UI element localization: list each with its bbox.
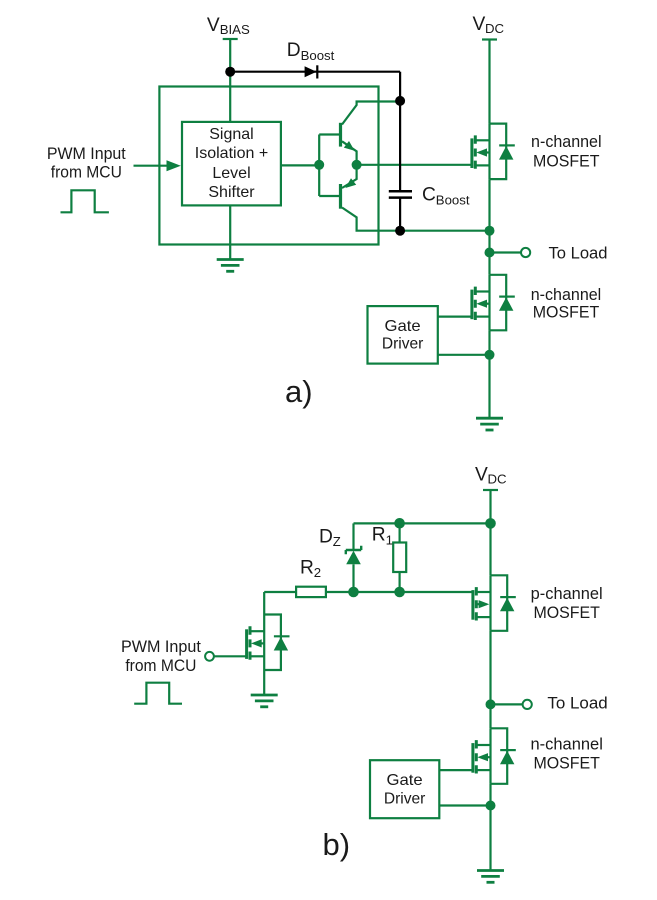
svg-text:n-channel: n-channel (531, 735, 603, 753)
svg-text:Driver: Driver (382, 335, 424, 352)
svg-text:1: 1 (386, 533, 393, 548)
svg-text:DC: DC (488, 471, 508, 486)
svg-text:C: C (422, 185, 436, 206)
svg-text:2: 2 (314, 565, 321, 580)
svg-text:MOSFET: MOSFET (533, 152, 600, 170)
svg-text:V: V (473, 14, 486, 35)
svg-text:V: V (207, 15, 220, 36)
svg-text:a): a) (285, 374, 313, 409)
svg-text:PWM Input: PWM Input (121, 638, 201, 656)
svg-text:n-channel: n-channel (531, 133, 602, 151)
svg-text:from MCU: from MCU (51, 163, 122, 181)
svg-text:from MCU: from MCU (125, 657, 196, 675)
svg-text:Signal: Signal (209, 126, 253, 143)
svg-text:Gate: Gate (385, 318, 421, 335)
svg-text:Shifter: Shifter (208, 184, 255, 201)
svg-text:BIAS: BIAS (220, 22, 250, 37)
svg-text:Driver: Driver (384, 791, 426, 808)
svg-text:To Load: To Load (547, 695, 607, 713)
svg-text:Boost: Boost (301, 48, 335, 63)
svg-text:b): b) (323, 827, 351, 862)
svg-text:D: D (319, 526, 333, 547)
svg-text:MOSFET: MOSFET (533, 604, 600, 622)
svg-text:R: R (300, 557, 314, 578)
svg-text:MOSFET: MOSFET (533, 755, 600, 773)
svg-text:Isolation +: Isolation + (195, 145, 269, 162)
svg-text:Boost: Boost (436, 192, 470, 207)
svg-text:D: D (287, 40, 301, 61)
svg-text:MOSFET: MOSFET (533, 303, 600, 321)
svg-text:Gate: Gate (387, 772, 423, 789)
svg-text:DC: DC (485, 21, 505, 36)
svg-text:Level: Level (212, 165, 250, 182)
svg-text:n-channel: n-channel (531, 286, 602, 304)
svg-text:Z: Z (333, 534, 341, 549)
svg-text:PWM Input: PWM Input (47, 145, 126, 163)
svg-text:R: R (372, 525, 386, 546)
svg-text:To Load: To Load (549, 244, 608, 262)
svg-text:V: V (475, 464, 488, 485)
svg-text:p-channel: p-channel (531, 585, 603, 603)
